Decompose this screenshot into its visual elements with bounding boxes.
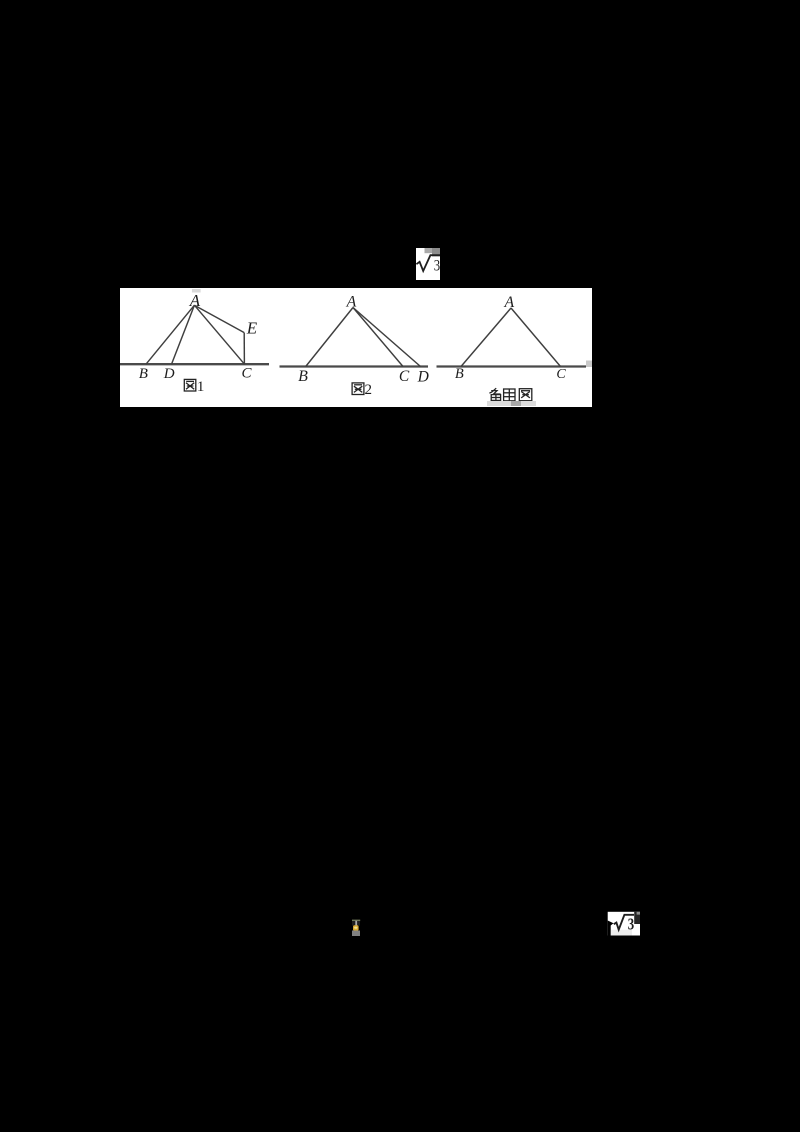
svg-text:A: A — [503, 294, 514, 311]
top sqrt3 gray square light — [425, 248, 433, 253]
bottom small colored mark: top bar — [352, 920, 360, 922]
top sqrt3 radical sign — [416, 255, 440, 271]
figure 1 caption tu1 box — [184, 379, 196, 391]
figure 1 wire AE — [194, 305, 244, 332]
figure 1 wire AB — [146, 305, 194, 364]
figure 1 base line — [120, 363, 269, 365]
gray smudge under beiyongtu caption — [487, 401, 536, 406]
figure 2 caption tu2 box — [352, 383, 364, 395]
svg-text:B: B — [455, 366, 464, 382]
figure 3 caption beiyongtu glyph bei — [489, 388, 500, 400]
svg-text:A: A — [189, 291, 201, 310]
svg-text:2: 2 — [364, 382, 372, 398]
gray artifact above A of figure 1 — [192, 289, 201, 293]
bottom small colored mark: dark block — [352, 921, 360, 926]
bottom small colored mark: yellow blob — [353, 925, 359, 930]
figure 2 wire AB — [306, 308, 353, 367]
svg-text:3: 3 — [434, 258, 440, 275]
bottom sqrt3 black notch on left edge — [608, 921, 614, 926]
top sqrt3 gray square dark — [432, 248, 440, 257]
bottom sqrt3 gray corner of bracket — [637, 912, 640, 915]
svg-text:3: 3 — [628, 915, 634, 934]
figure 3 caption beiyongtu glyph yong — [504, 389, 515, 401]
svg-text:B: B — [298, 368, 308, 385]
bottom sqrt3 white patch — [608, 912, 640, 936]
bottom sqrt3 dark bracket top-right — [634, 912, 640, 924]
svg-text:C: C — [556, 367, 566, 382]
svg-text:1: 1 — [197, 379, 205, 395]
figure 1 wire EC — [243, 333, 245, 365]
svg-text:E: E — [246, 318, 258, 337]
svg-text:D: D — [417, 369, 429, 386]
figure 2 wire AC — [353, 308, 403, 367]
bottom small colored mark: stem — [355, 921, 357, 926]
svg-text:C: C — [241, 366, 252, 382]
figure 3 wire AB — [461, 308, 511, 367]
figure 3 base line — [437, 365, 587, 367]
top sqrt3 white patch — [416, 248, 440, 280]
bottom sqrt3 black bottom-left corner — [608, 926, 611, 936]
figure 3 wire AC — [511, 308, 561, 367]
bottom sqrt3 radical sign — [614, 915, 634, 930]
figure 1 wire AC — [194, 305, 244, 364]
white band — [120, 288, 592, 407]
figure 1 wire AD — [172, 305, 195, 364]
svg-text:A: A — [346, 294, 357, 311]
svg-text:B: B — [139, 366, 148, 382]
bottom small colored mark: yellow highlight — [354, 927, 357, 929]
bottom sqrt3 light gray bottom strip — [611, 930, 632, 936]
figure 2 wire AD — [353, 308, 421, 367]
svg-text:D: D — [163, 366, 175, 382]
figure 3 gray block at right end of base line — [586, 361, 592, 368]
bottom small colored mark: gray base — [352, 931, 360, 937]
figure 2 base line — [280, 365, 429, 367]
svg-text:C: C — [399, 368, 410, 385]
figure 3 caption beiyongtu glyph tu — [519, 389, 532, 401]
